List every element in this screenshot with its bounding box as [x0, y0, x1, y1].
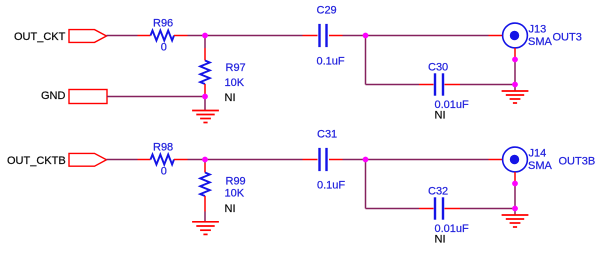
svg-text:0.1uF: 0.1uF [317, 180, 345, 192]
svg-text:OUT_CKT: OUT_CKT [14, 31, 66, 43]
svg-text:J13: J13 [529, 24, 547, 36]
svg-text:OUT_CKTB: OUT_CKTB [7, 155, 66, 167]
svg-text:NI: NI [435, 110, 446, 122]
svg-text:R98: R98 [153, 142, 173, 154]
svg-text:NI: NI [435, 234, 446, 246]
svg-text:R97: R97 [226, 62, 246, 74]
svg-text:10K: 10K [225, 188, 245, 200]
svg-text:J14: J14 [529, 148, 547, 160]
svg-text:SMA: SMA [528, 36, 553, 48]
svg-text:R96: R96 [153, 18, 173, 30]
svg-text:OUT3: OUT3 [553, 32, 582, 44]
svg-text:SMA: SMA [528, 160, 553, 172]
svg-text:0.1uF: 0.1uF [317, 56, 345, 68]
svg-text:C30: C30 [428, 62, 448, 74]
svg-text:NI: NI [225, 92, 236, 104]
svg-text:OUT3B: OUT3B [559, 156, 596, 168]
svg-text:0: 0 [161, 42, 167, 54]
svg-text:R99: R99 [226, 176, 246, 188]
svg-text:C31: C31 [317, 129, 337, 141]
svg-text:10K: 10K [225, 77, 245, 89]
svg-text:C32: C32 [428, 186, 448, 198]
svg-text:GND: GND [41, 90, 66, 102]
svg-text:NI: NI [225, 203, 236, 215]
svg-text:0: 0 [161, 166, 167, 178]
svg-text:C29: C29 [317, 5, 337, 17]
